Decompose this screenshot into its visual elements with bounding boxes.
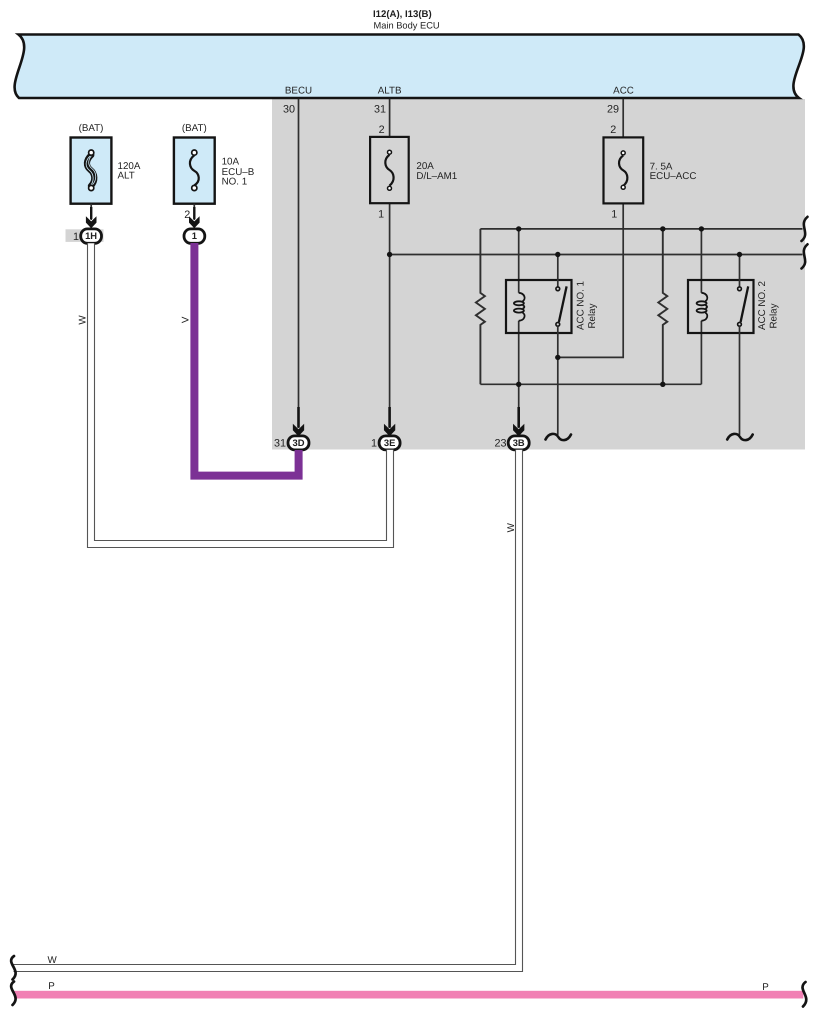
junction switch S2 / lower bus bbox=[737, 252, 742, 257]
svg-text:1: 1 bbox=[371, 438, 377, 450]
junction ALTB / lower bus bbox=[387, 252, 392, 257]
arrow into 3B bbox=[513, 424, 524, 437]
fuse 10A ECU-B NO.1 bbox=[174, 123, 255, 204]
fuse 20A D/L-AM1 bbox=[370, 124, 457, 220]
relay U2 ACC NO.2 bbox=[688, 229, 780, 435]
wire ACC vertical (band to fuse) bbox=[622, 99, 624, 138]
relay U1 ACC NO.1 bbox=[506, 229, 598, 435]
svg-text:23: 23 bbox=[494, 438, 506, 450]
svg-text:BECU: BECU bbox=[285, 86, 312, 97]
wire ALTB vertical (band to fuse) bbox=[389, 99, 391, 137]
arrow into 3E bbox=[384, 424, 395, 437]
svg-text:NO. 1: NO. 1 bbox=[222, 177, 248, 188]
junction switch S1 / lower bus bbox=[555, 252, 560, 257]
arrow into 3D bbox=[293, 424, 304, 437]
svg-text:ALT: ALT bbox=[118, 171, 135, 182]
fuse 7.5A ECU-ACC bbox=[604, 124, 697, 220]
internal shaded block of Main Body ECU bbox=[272, 99, 805, 450]
wire W from 1H to 3E (white, double line) bbox=[88, 243, 394, 547]
svg-text:3B: 3B bbox=[513, 437, 525, 448]
connector highlight box bbox=[66, 229, 104, 242]
svg-text:2: 2 bbox=[610, 124, 616, 136]
svg-text:P: P bbox=[48, 981, 55, 992]
svg-text:31: 31 bbox=[274, 438, 286, 450]
svg-text:ACC: ACC bbox=[613, 86, 634, 97]
svg-text:Relay: Relay bbox=[769, 303, 780, 328]
wire fuse ALT to connector 1H bbox=[90, 204, 92, 220]
break squiggle line1 right bbox=[802, 217, 808, 241]
connector 3E bbox=[379, 436, 400, 450]
fuse 120A ALT bbox=[71, 123, 141, 204]
junction resistor R2 / upper bus bbox=[660, 226, 665, 231]
break tilde relay2 output bbox=[727, 434, 753, 440]
coil L1 bbox=[519, 293, 525, 301]
svg-text:W: W bbox=[48, 955, 58, 966]
svg-text:P: P bbox=[762, 982, 769, 993]
coil L2 bbox=[701, 293, 707, 301]
connector 3D bbox=[288, 436, 309, 450]
svg-text:I12(A), I13(B): I12(A), I13(B) bbox=[373, 9, 432, 20]
wire fuse ECU-B to connector 1 bbox=[193, 204, 195, 220]
svg-text:W: W bbox=[506, 522, 517, 532]
svg-text:1H: 1H bbox=[85, 230, 97, 241]
svg-text:(BAT): (BAT) bbox=[182, 123, 207, 134]
break tilde relay1 output bbox=[546, 434, 572, 440]
svg-text:V: V bbox=[180, 316, 191, 323]
wire ACC fuse down to relay feed bbox=[558, 203, 623, 357]
junction coil L1 return / bottom bus bbox=[516, 382, 521, 387]
arrow into 1H bbox=[86, 216, 97, 228]
switch S2 bbox=[739, 255, 741, 287]
svg-text:29: 29 bbox=[607, 103, 619, 115]
connector 1 bbox=[184, 229, 205, 243]
ECU band I12/I13 bbox=[15, 35, 804, 99]
svg-text:ECU–ACC: ECU–ACC bbox=[650, 171, 697, 182]
svg-text:ACC NO. 2: ACC NO. 2 bbox=[757, 281, 768, 330]
switch S1 bbox=[557, 255, 559, 287]
connector 1H bbox=[81, 229, 102, 243]
svg-text:3E: 3E bbox=[384, 437, 395, 448]
bus line lower (line 2) bbox=[390, 254, 803, 256]
svg-text:1: 1 bbox=[378, 208, 384, 220]
bus line upper (line 1) bbox=[480, 228, 802, 230]
junction resistor R2 / bottom bus bbox=[660, 382, 665, 387]
wire V (violet) from connector 1 to 3D bbox=[194, 243, 298, 476]
break squiggle P bottom-right bbox=[802, 982, 806, 1007]
wire P (pink) bottom bbox=[14, 991, 803, 999]
bottom bus line bbox=[480, 383, 701, 385]
junction coil L1 / upper bus bbox=[516, 226, 521, 231]
arrow into connector 1 bbox=[189, 216, 200, 228]
svg-text:1: 1 bbox=[192, 230, 197, 241]
svg-text:3D: 3D bbox=[293, 437, 305, 448]
svg-text:1: 1 bbox=[611, 208, 617, 220]
svg-text:2: 2 bbox=[379, 124, 385, 136]
svg-text:1: 1 bbox=[73, 231, 79, 243]
wire ALTB fuse to 3E bbox=[389, 203, 391, 428]
resistor R1 bbox=[476, 229, 485, 384]
wire BECU vertical bbox=[298, 99, 300, 428]
svg-text:D/L–AM1: D/L–AM1 bbox=[416, 171, 457, 182]
wire 3B feed bbox=[518, 384, 520, 428]
svg-text:30: 30 bbox=[283, 103, 295, 115]
svg-text:Relay: Relay bbox=[587, 303, 598, 328]
svg-text:(BAT): (BAT) bbox=[79, 123, 104, 134]
resistor R2 bbox=[658, 229, 667, 384]
svg-text:31: 31 bbox=[374, 103, 386, 115]
junction switch S1 output / ACC feed bbox=[555, 355, 560, 360]
svg-text:ACC NO. 1: ACC NO. 1 bbox=[576, 281, 587, 330]
break squiggle P bottom-left bbox=[11, 982, 16, 1006]
svg-text:ALTB: ALTB bbox=[378, 86, 402, 97]
svg-text:W: W bbox=[77, 315, 88, 325]
svg-text:Main Body ECU: Main Body ECU bbox=[374, 20, 440, 30]
svg-text:10A: 10A bbox=[222, 156, 240, 167]
break squiggle W bottom-left bbox=[11, 956, 16, 980]
junction coil L2 / upper bus bbox=[699, 226, 704, 231]
connector 3B bbox=[508, 436, 529, 450]
break squiggle line2 right bbox=[802, 244, 808, 268]
wire W from 3B to bottom (white, double line) bbox=[14, 450, 523, 972]
